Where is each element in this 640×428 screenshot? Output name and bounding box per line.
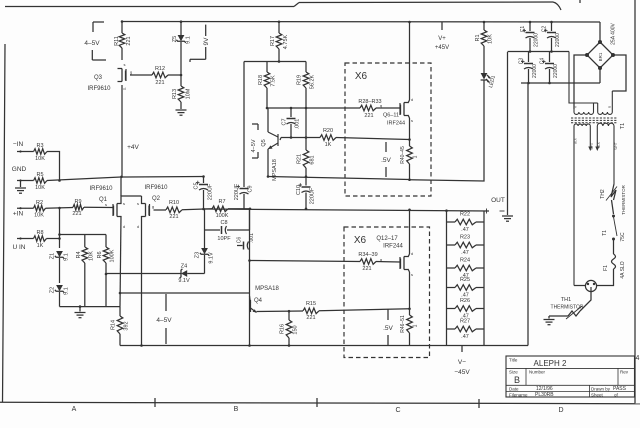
label X6 (lower) xyxy=(354,235,367,246)
svg-text:R27: R27 xyxy=(460,319,470,325)
diode LED1 xyxy=(481,46,498,89)
svg-text:221: 221 xyxy=(306,315,315,321)
wire bridge AC right xyxy=(612,55,626,91)
resistor R26 xyxy=(447,298,485,320)
svg-text:R22: R22 xyxy=(460,212,470,218)
svg-text:4–5V: 4–5V xyxy=(156,317,172,324)
wire network top rail xyxy=(60,234,107,236)
capacitor C9 xyxy=(234,62,254,209)
svg-text:C5: C5 xyxy=(194,182,200,189)
svg-text:56.2K: 56.2K xyxy=(310,74,316,89)
svg-text:10K: 10K xyxy=(34,213,44,219)
wire output feedback rail xyxy=(205,209,490,213)
thermal switch TS1 xyxy=(602,200,626,242)
svg-text:392: 392 xyxy=(124,321,130,330)
capacitor C2 xyxy=(542,21,562,52)
resistor R16 xyxy=(280,310,299,346)
svg-text:MPSA18: MPSA18 xyxy=(272,159,278,181)
svg-text:OUT: OUT xyxy=(491,197,505,204)
svg-text:Q6–11: Q6–11 xyxy=(383,113,399,119)
svg-text:THERMISTOR: THERMISTOR xyxy=(551,305,584,311)
svg-text:+45V: +45V xyxy=(435,45,449,51)
svg-text:220UF: 220UF xyxy=(208,183,214,200)
svg-text:g: g xyxy=(152,204,154,209)
svg-text:100K: 100K xyxy=(216,213,229,219)
svg-text:Q1: Q1 xyxy=(99,197,108,203)
capacitor C1 xyxy=(520,21,540,52)
label +IN xyxy=(13,211,24,218)
svg-text:R2: R2 xyxy=(36,200,43,206)
svg-text:Q4: Q4 xyxy=(254,298,263,304)
label -IN xyxy=(13,141,24,148)
svg-text:C4: C4 xyxy=(540,58,546,65)
label .5V bracket (upper) xyxy=(381,142,391,177)
svg-text:150: 150 xyxy=(293,325,299,334)
wire R12 to node Z5/R13 xyxy=(168,74,182,77)
svg-text:R12: R12 xyxy=(155,66,165,72)
svg-text:.47: .47 xyxy=(461,250,469,256)
svg-text:R8: R8 xyxy=(36,230,43,236)
resistor R15 xyxy=(303,301,319,321)
svg-text:10K: 10K xyxy=(89,251,95,261)
svg-text:Date: Date xyxy=(509,386,519,391)
label 9V bracket xyxy=(190,25,210,62)
svg-text:d: d xyxy=(411,251,413,256)
label IRF9610 (Q1) xyxy=(89,186,113,192)
svg-text:9.1V: 9.1V xyxy=(209,252,215,264)
svg-text:C9: C9 xyxy=(248,185,254,192)
label Q4 xyxy=(254,298,263,304)
svg-text:TH2: TH2 xyxy=(600,189,606,199)
svg-text:V−: V− xyxy=(458,359,466,366)
wire Q5 emitter rail xyxy=(267,175,410,179)
svg-text:4–5V: 4–5V xyxy=(84,40,100,47)
resistor R17 xyxy=(270,21,289,62)
svg-text:PASS: PASS xyxy=(613,386,627,392)
svg-text:U IN: U IN xyxy=(13,244,26,251)
border frame right edge xyxy=(634,0,636,403)
svg-text:d: d xyxy=(123,86,125,91)
wire Q2 drain down xyxy=(141,216,143,346)
svg-text:R16: R16 xyxy=(280,324,286,334)
svg-text:C1: C1 xyxy=(520,26,526,33)
svg-text:Size: Size xyxy=(509,370,518,375)
resistor R22 xyxy=(447,212,485,234)
transformer T1 secondary left winding xyxy=(574,103,594,114)
capacitor C7 xyxy=(282,108,301,138)
zener Z5 xyxy=(172,22,192,75)
svg-text:R21: R21 xyxy=(297,154,303,164)
wire V- rail xyxy=(120,344,528,347)
transistor Q5 xyxy=(268,108,278,177)
title block Size label xyxy=(509,370,518,375)
node GND terminal xyxy=(17,179,34,181)
svg-text:s: s xyxy=(123,201,125,206)
wire Q6-11 source down xyxy=(408,115,411,141)
svg-text:R23: R23 xyxy=(460,235,470,241)
svg-text:221: 221 xyxy=(169,214,178,220)
resistor R46-51 xyxy=(400,309,419,346)
node V+ +45V xyxy=(435,22,449,51)
svg-text:IRF244: IRF244 xyxy=(383,244,403,250)
label 4-5V bracket (top left) xyxy=(84,22,106,60)
label GND xyxy=(12,166,27,173)
capacitor C6 xyxy=(237,233,256,250)
label MPSA18 (Q4) xyxy=(255,286,279,292)
svg-text:WHT: WHT xyxy=(614,142,618,149)
border zone tick bottom 1 xyxy=(154,398,156,407)
label MPSA18 (Q5) xyxy=(272,159,278,181)
svg-text:Q5: Q5 xyxy=(261,139,267,146)
svg-text:THERMISTOR: THERMISTOR xyxy=(621,184,626,214)
svg-text:d: d xyxy=(123,224,125,229)
svg-text:MPSA18: MPSA18 xyxy=(255,286,279,292)
svg-text:4: 4 xyxy=(636,355,640,362)
svg-text:C6: C6 xyxy=(237,237,243,244)
resistor R27 xyxy=(447,319,485,341)
label U IN xyxy=(13,244,26,251)
label .5V bracket (lower) xyxy=(383,309,393,345)
transistor Q12-17 xyxy=(400,251,413,277)
border frame left edge xyxy=(3,44,6,402)
svg-text:R28–R33: R28–R33 xyxy=(358,99,381,105)
resistor R13 xyxy=(172,75,192,109)
wire Q4 emitter to R15 xyxy=(257,310,304,313)
resistor R34-39 xyxy=(358,252,377,272)
svg-text:4.75K: 4.75K xyxy=(283,34,289,49)
svg-text:Number: Number xyxy=(529,370,546,375)
fuse F1 xyxy=(603,240,626,280)
svg-text:10K: 10K xyxy=(35,185,45,191)
capacitor C8 xyxy=(205,209,250,242)
svg-text:25A 400V: 25A 400V xyxy=(611,22,617,44)
wire Q3 drain down to rail xyxy=(121,85,123,177)
label IRF9610 (Q2) xyxy=(144,185,168,191)
svg-text:Q2: Q2 xyxy=(152,196,161,202)
svg-text:s: s xyxy=(137,201,139,206)
capacitor C4 xyxy=(540,52,560,84)
resistor R23 xyxy=(447,235,485,257)
svg-text:+4V: +4V xyxy=(127,144,139,151)
resistor R18 xyxy=(258,62,277,109)
wire fuse to plug xyxy=(597,280,614,286)
svg-text:220UF: 220UF xyxy=(234,183,240,200)
wire zero volt mid rail xyxy=(508,50,570,53)
svg-text:22000: 22000 xyxy=(555,33,561,47)
svg-text:C3: C3 xyxy=(519,58,525,65)
svg-text:1K: 1K xyxy=(325,142,332,148)
title block sheet of xyxy=(614,393,619,398)
label X6 (upper) xyxy=(355,71,368,82)
border zone label B xyxy=(234,406,239,413)
title block frame xyxy=(506,356,635,397)
title block ALEPH 2 xyxy=(534,359,567,368)
wire R15 to X6 lower source node xyxy=(319,309,410,311)
svg-text:WHT: WHT xyxy=(590,142,594,149)
resistor R12 xyxy=(152,66,168,86)
node U IN terminal xyxy=(17,237,34,239)
svg-text:B: B xyxy=(234,406,239,413)
svg-text:C2: C2 xyxy=(542,26,548,33)
wire Q4 base node to R34-39 xyxy=(248,259,360,262)
svg-text:R14: R14 xyxy=(111,320,117,330)
title block Rev label xyxy=(620,370,629,375)
capacitor C5 xyxy=(194,175,214,209)
resistor R4 xyxy=(76,235,95,307)
resistor R11 xyxy=(114,22,132,49)
svg-text:g: g xyxy=(380,103,382,108)
ground at GND input xyxy=(15,181,26,194)
svg-text:B: B xyxy=(514,375,520,385)
border frame bottom edge xyxy=(0,402,640,403)
svg-text:PL30RB: PL30RB xyxy=(535,392,554,398)
label Q1 xyxy=(99,197,108,203)
svg-text:4A SLO: 4A SLO xyxy=(620,261,626,278)
svg-text:g: g xyxy=(380,257,382,262)
svg-text:1: 1 xyxy=(413,324,419,327)
svg-text:Rev: Rev xyxy=(620,370,629,375)
svg-text:g: g xyxy=(130,70,132,75)
svg-text:221: 221 xyxy=(364,113,373,119)
wire R28-R33 to Q6-11 gate xyxy=(376,103,400,108)
svg-text:X6: X6 xyxy=(355,71,368,82)
svg-text:C10: C10 xyxy=(296,185,302,195)
svg-text:BLK: BLK xyxy=(597,141,601,148)
svg-text:9.1: 9.1 xyxy=(64,287,70,295)
svg-text:R24: R24 xyxy=(460,258,470,264)
svg-text:X6: X6 xyxy=(354,235,367,246)
border zone tick bottom 2 xyxy=(316,398,318,407)
svg-text:R19: R19 xyxy=(297,75,303,85)
svg-text:R15: R15 xyxy=(306,301,316,307)
svg-text:C7: C7 xyxy=(282,118,288,125)
wire bridge - to V- rail xyxy=(599,68,601,83)
svg-text:681: 681 xyxy=(310,155,316,164)
wire Q1 drain down xyxy=(120,216,121,307)
svg-text:221: 221 xyxy=(72,211,81,217)
bridge rectifier BR1 xyxy=(585,22,617,70)
svg-text:s: s xyxy=(124,62,126,67)
title block Sheet label xyxy=(591,393,604,398)
wire LED to source rail xyxy=(410,81,485,182)
wire V- cap rail xyxy=(521,82,600,85)
svg-text:10PF: 10PF xyxy=(217,236,231,242)
svg-text:IRF244: IRF244 xyxy=(387,121,405,127)
svg-text:Z4: Z4 xyxy=(181,264,187,270)
svg-text:R34–39: R34–39 xyxy=(358,252,377,258)
transistor Q4 xyxy=(250,296,257,313)
border frame top edge xyxy=(5,0,580,10)
label IRF244 (upper) xyxy=(387,121,405,127)
zener Z4 xyxy=(106,264,205,285)
svg-text:1K: 1K xyxy=(37,243,44,249)
svg-text:10K: 10K xyxy=(488,34,494,44)
thermistor TH2 xyxy=(600,184,626,215)
svg-text:R26: R26 xyxy=(460,298,470,304)
svg-text:TH1: TH1 xyxy=(561,297,571,303)
resistor R24 xyxy=(447,258,485,280)
svg-text:10K: 10K xyxy=(35,156,45,162)
resistor R3 xyxy=(34,143,47,162)
label T1 xyxy=(620,123,626,129)
svg-text:.47: .47 xyxy=(461,334,469,340)
resistor R9 xyxy=(72,199,84,217)
wire ladder left rail xyxy=(446,211,448,346)
svg-text:d: d xyxy=(137,224,139,229)
wire R2 to R9 xyxy=(46,207,74,210)
transistor Q2 xyxy=(137,201,154,229)
label Q3 IRF9610 xyxy=(87,86,111,92)
label Q12-17 xyxy=(376,236,398,242)
svg-text:22000: 22000 xyxy=(532,64,538,78)
svg-text:R13: R13 xyxy=(172,89,178,99)
border zone label D xyxy=(558,407,563,414)
resistor R10 xyxy=(166,200,182,220)
node -IN terminal xyxy=(17,150,34,152)
svg-text:R5: R5 xyxy=(36,172,43,178)
svg-text:IRF9610: IRF9610 xyxy=(87,86,111,92)
svg-text:R18: R18 xyxy=(258,75,264,85)
svg-text:GND: GND xyxy=(12,166,27,173)
svg-text:R1: R1 xyxy=(475,34,481,41)
connector AC plug xyxy=(585,280,596,291)
resistor R7 xyxy=(205,199,252,219)
wire Q5 base rail xyxy=(280,136,320,140)
svg-text:75C: 75C xyxy=(620,232,626,242)
svg-text:T1: T1 xyxy=(620,123,626,129)
svg-text:Title: Title xyxy=(509,358,518,363)
svg-text:Drawn by: Drawn by xyxy=(591,387,611,392)
title block date value xyxy=(536,386,553,392)
svg-text:Z5: Z5 xyxy=(172,36,178,42)
transistor Q1 xyxy=(112,201,125,229)
wire V- down to rail xyxy=(527,83,529,346)
wire gate drive rail xyxy=(266,107,360,110)
label 4-5V bracket (Q5) xyxy=(251,124,258,158)
svg-text:4−5V: 4−5V xyxy=(251,139,257,152)
capacitor C10 xyxy=(296,177,316,210)
svg-text:F1: F1 xyxy=(603,265,609,271)
title block Date label xyxy=(509,386,519,391)
ground below R13 xyxy=(176,110,187,115)
wire zero volt rail down xyxy=(507,52,509,211)
svg-text:d: d xyxy=(411,97,413,102)
svg-text:R4: R4 xyxy=(76,251,82,258)
svg-text:R17: R17 xyxy=(270,36,276,46)
ground at TH1 xyxy=(544,316,555,325)
wire Q12-17 drain to output rail xyxy=(408,210,410,257)
zener Z3 xyxy=(195,230,215,274)
svg-text:IRF9610: IRF9610 xyxy=(144,185,168,191)
svg-text:BLK: BLK xyxy=(574,137,578,144)
wire GND rail to C5 node xyxy=(47,176,204,182)
wire mirror top rail xyxy=(244,60,306,63)
svg-text:C: C xyxy=(395,407,400,414)
svg-text:IRF9610: IRF9610 xyxy=(89,186,113,192)
wire R9 to Q1 gate xyxy=(84,202,112,208)
transformer T1 primary left winding xyxy=(574,124,592,286)
ground below network xyxy=(75,307,86,318)
svg-text:221: 221 xyxy=(126,36,132,45)
svg-text:100K: 100K xyxy=(110,249,116,262)
transistor Q6-11 xyxy=(400,97,413,123)
transformer T1 primary right winding xyxy=(595,123,614,184)
title block Drawn by xyxy=(591,387,611,392)
title block Filename label xyxy=(509,392,528,397)
label Q6-11 xyxy=(383,113,399,119)
svg-text:R10: R10 xyxy=(169,200,179,206)
label OUT xyxy=(491,197,505,204)
wire ladder right rail xyxy=(483,211,485,346)
svg-text:ALEPH 2: ALEPH 2 xyxy=(534,359,567,368)
svg-text:R46–51: R46–51 xyxy=(400,315,406,333)
resistor R40-45 xyxy=(400,140,419,182)
node OUT - terminal xyxy=(500,210,505,212)
svg-text:Filename: Filename xyxy=(509,392,528,397)
label IRF244 (lower) xyxy=(383,244,403,250)
svg-text:22000: 22000 xyxy=(553,64,559,78)
svg-text:9V: 9V xyxy=(203,37,210,46)
resistor R20 xyxy=(320,128,336,148)
svg-text:D: D xyxy=(558,407,563,414)
label Q2 xyxy=(152,196,161,202)
svg-text:221: 221 xyxy=(155,80,164,86)
svg-text:.5V: .5V xyxy=(383,325,393,332)
svg-text:+IN: +IN xyxy=(13,211,24,218)
resistor R14 xyxy=(111,307,130,346)
wire R3 to GND rail xyxy=(47,152,60,181)
svg-text:9.1: 9.1 xyxy=(64,253,70,261)
title block Title label xyxy=(509,358,518,363)
wire +IN node down to network xyxy=(58,208,61,248)
wire R20 to X6 upper source node xyxy=(336,138,410,140)
wire T1 center tap xyxy=(569,52,598,104)
svg-text:s: s xyxy=(411,272,413,277)
border zone tick bottom 3 xyxy=(478,399,480,408)
svg-text:22000: 22000 xyxy=(534,33,540,47)
title block drawn by PASS xyxy=(613,386,627,392)
svg-text:R7: R7 xyxy=(218,199,225,205)
svg-text:9.1: 9.1 xyxy=(186,36,192,44)
transformer T1 secondary right winding xyxy=(598,91,613,114)
resistor R25 xyxy=(447,277,485,299)
zener Z1 xyxy=(50,251,70,283)
label TH1 xyxy=(561,297,571,303)
wire sources to +4V rail xyxy=(120,177,122,196)
svg-text:Sheet: Sheet xyxy=(591,393,604,398)
svg-text:.5V: .5V xyxy=(381,157,391,164)
node +IN terminal xyxy=(17,207,34,209)
wire Q12-17 source down xyxy=(408,269,411,310)
wire Q2 source up xyxy=(141,196,143,204)
ground at OUT xyxy=(502,211,513,221)
wire front node down to Q4 base xyxy=(249,209,251,346)
svg-text:R20: R20 xyxy=(323,128,333,134)
wire Q6-11 drain to V+ rail xyxy=(408,21,411,103)
svg-text:BR1: BR1 xyxy=(598,52,603,61)
label 4-5V bracket (bottom) xyxy=(156,294,172,344)
capacitor C3 xyxy=(519,52,539,84)
zener Z2 xyxy=(50,285,70,307)
svg-text:s: s xyxy=(411,118,413,123)
svg-text:10M: 10M xyxy=(186,88,192,99)
svg-text:A: A xyxy=(72,406,77,413)
transformer T1 core xyxy=(571,118,617,123)
svg-text:Z3: Z3 xyxy=(195,252,201,258)
border zone label 4 xyxy=(636,355,640,362)
resistor R1 xyxy=(475,21,494,46)
resistor R2 xyxy=(34,200,46,219)
